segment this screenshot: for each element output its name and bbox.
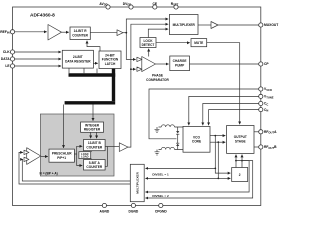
svg-text:COUNTER: COUNTER (86, 145, 102, 149)
svg-text:DATA REGISTER: DATA REGISTER (65, 59, 91, 63)
svg-text:REGISTER: REGISTER (84, 127, 101, 131)
svg-text:PRESCALER: PRESCALER (52, 151, 72, 155)
svg-text:ADF4360-8: ADF4360-8 (30, 13, 55, 19)
svg-text:VCO: VCO (193, 135, 200, 139)
svg-text:DGND: DGND (129, 210, 139, 214)
svg-text:N = (BP + A): N = (BP + A) (40, 171, 58, 175)
svg-text:DATA: DATA (1, 57, 10, 61)
svg-text:PHASE: PHASE (152, 74, 163, 78)
svg-text:RFOUTB: RFOUTB (264, 145, 277, 150)
svg-text:CC: CC (264, 102, 268, 107)
svg-text:CORE: CORE (192, 140, 201, 144)
svg-text:DETECT: DETECT (142, 43, 155, 47)
svg-text:5-BIT A: 5-BIT A (89, 161, 101, 165)
svg-text:COUNTER: COUNTER (72, 34, 88, 38)
svg-text:CPGND: CPGND (155, 210, 168, 214)
svg-text:AVDD: AVDD (99, 2, 107, 7)
svg-text:AGND: AGND (100, 210, 110, 214)
svg-text:CP: CP (264, 62, 269, 66)
svg-text:LATCH: LATCH (105, 62, 116, 66)
svg-text:STAGE: STAGE (235, 139, 246, 143)
svg-text:PUMP: PUMP (175, 63, 185, 67)
svg-text:MULTIPLEXER: MULTIPLEXER (135, 171, 139, 193)
svg-text:COMPARATOR: COMPARATOR (146, 78, 169, 82)
svg-text:LE: LE (5, 64, 10, 68)
svg-text:OUTPUT: OUTPUT (234, 135, 247, 139)
svg-text:CN: CN (264, 108, 268, 113)
svg-text:24-BIT: 24-BIT (73, 55, 83, 59)
svg-text:CLK: CLK (3, 50, 10, 54)
svg-text:2: 2 (239, 173, 241, 177)
svg-text:CHARGE: CHARGE (173, 59, 187, 63)
svg-text:COUNTER: COUNTER (86, 165, 102, 169)
svg-text:RFOUTA: RFOUTA (264, 130, 277, 135)
svg-text:13-BIT B: 13-BIT B (88, 141, 102, 145)
svg-text:CE: CE (153, 2, 158, 6)
svg-text:VTUNE: VTUNE (264, 95, 274, 100)
svg-text:14-BIT R: 14-BIT R (74, 29, 88, 33)
svg-text:LOAD: LOAD (81, 155, 88, 159)
svg-text:DIVSEL = 2: DIVSEL = 2 (152, 194, 169, 198)
svg-text:DIVSEL = 1: DIVSEL = 1 (152, 172, 169, 176)
svg-text:RSET: RSET (171, 2, 179, 7)
svg-text:P/P+1: P/P+1 (57, 156, 66, 160)
svg-text:VVCO: VVCO (264, 87, 272, 92)
svg-text:REFIN: REFIN (0, 30, 9, 35)
svg-text:MUTE: MUTE (194, 41, 203, 45)
svg-text:DVDD: DVDD (123, 2, 132, 7)
svg-text:MUXOUT: MUXOUT (264, 23, 278, 27)
svg-text:MULTIPLEXER: MULTIPLEXER (173, 23, 196, 27)
